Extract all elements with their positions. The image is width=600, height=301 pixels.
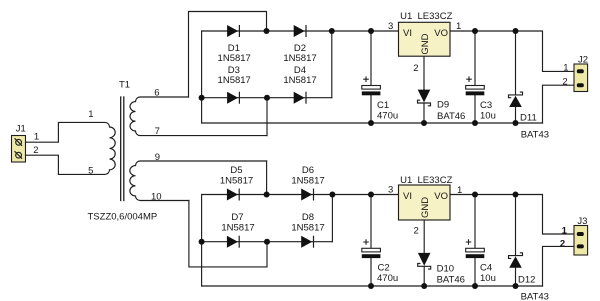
node D3-D4 midpoint [264, 95, 270, 101]
transformer core bars [121, 97, 124, 201]
svg-text:1: 1 [457, 185, 462, 196]
node C3 top [472, 28, 478, 34]
wire bottom bridge left common vertical [201, 195, 203, 287]
svg-text:1: 1 [88, 109, 93, 120]
svg-text:T1: T1 [119, 80, 130, 91]
wire primary with winding T1 left [26, 122, 116, 174]
capacitor C4 [466, 239, 496, 284]
node C3 bottom [472, 120, 478, 126]
node D5-D6 midpoint [264, 192, 270, 198]
wire top VO to J2 [450, 31, 574, 71]
wire C4 branch [474, 195, 476, 287]
winding secondary bottom (pins 9-10) [130, 161, 267, 201]
svg-text:D5: D5 [230, 165, 242, 176]
svg-text:1: 1 [563, 62, 568, 73]
svg-text:D8: D8 [302, 212, 314, 223]
wire top bridge plus rail [202, 30, 399, 32]
node C2 bottom [368, 283, 374, 289]
labels bottom bridge diodes [220, 165, 325, 234]
svg-text:470u: 470u [377, 273, 398, 284]
svg-text:10: 10 [151, 191, 162, 202]
wire J3 pin2 [543, 246, 575, 286]
svg-text:BAT43: BAT43 [521, 291, 549, 301]
wire pin6 loop to D1-D2 node [189, 12, 267, 98]
svg-text:D7: D7 [231, 212, 243, 223]
wire C1 branch [370, 31, 372, 123]
svg-text:3: 3 [388, 21, 393, 32]
wire bottom VO to J3 [450, 195, 574, 235]
svg-text:VO: VO [434, 191, 448, 202]
svg-text:3: 3 [388, 184, 393, 195]
node C4 bottom [472, 283, 478, 289]
wire top 0V rail [202, 122, 543, 124]
svg-text:D6: D6 [302, 165, 314, 176]
node bottom bridge right top [329, 192, 335, 198]
wire C3 branch [474, 31, 476, 123]
wire pin9 down to D5-D6 node [266, 161, 268, 195]
svg-text:2: 2 [560, 238, 565, 249]
svg-text:1N5817: 1N5817 [291, 175, 324, 186]
wire D11 branch [515, 31, 517, 123]
svg-text:1N5817: 1N5817 [283, 53, 316, 64]
labels J1 [16, 124, 39, 156]
diode D3 [227, 92, 239, 104]
svg-text:VI: VI [403, 28, 412, 39]
node D9 bottom [421, 120, 427, 126]
svg-text:9: 9 [155, 152, 160, 163]
diode D1 [227, 25, 239, 37]
capacitor C2 [362, 239, 398, 284]
svg-text:1: 1 [34, 132, 39, 143]
svg-text:VO: VO [434, 28, 448, 39]
node D11 bottom [513, 120, 519, 126]
svg-text:1N5817: 1N5817 [291, 222, 324, 233]
diode D2 [294, 25, 306, 37]
svg-text:GND: GND [420, 197, 431, 218]
svg-text:5: 5 [88, 165, 93, 176]
diode D6 [301, 189, 313, 201]
diode D4 [294, 92, 306, 104]
wire top bridge left common vertical [201, 31, 203, 123]
svg-text:1: 1 [562, 225, 568, 236]
svg-text:2: 2 [413, 63, 418, 74]
node C1 top [368, 28, 374, 34]
node C1 bottom [368, 120, 374, 126]
capacitor C3 [466, 76, 496, 121]
node top bridge right top [329, 28, 335, 34]
node D11 top [513, 28, 519, 34]
svg-text:1N5817: 1N5817 [220, 175, 253, 186]
node bottom bridge left lower [199, 239, 205, 245]
svg-text:D9: D9 [437, 100, 449, 111]
svg-text:2: 2 [562, 77, 567, 88]
svg-text:10u: 10u [480, 273, 496, 284]
diode D7 [227, 236, 239, 248]
svg-text:10u: 10u [480, 110, 496, 121]
node top bridge left lower [199, 95, 205, 101]
regulator U1 bottom [388, 175, 462, 236]
diode D12 BAT43 [509, 253, 549, 301]
svg-text:J3: J3 [577, 216, 587, 227]
wire bottom bridge lower rail D7 D8 [202, 241, 333, 243]
wire bottom 0V rail [202, 285, 543, 287]
diode D8 [301, 236, 313, 248]
connector J1 [12, 136, 26, 163]
node D12 top [513, 192, 519, 198]
svg-text:7: 7 [155, 126, 160, 137]
labels transformer [88, 80, 162, 223]
labels top bridge diodes [218, 43, 317, 86]
wire C2 branch [370, 195, 372, 287]
svg-text:BAT43: BAT43 [521, 130, 549, 141]
wire D10 branch [423, 220, 425, 286]
node C4 top [472, 192, 478, 198]
wire pin10 run to D7-D8 node [189, 201, 267, 267]
connector J3 [560, 216, 588, 255]
wire bottom bridge right vertical [331, 195, 333, 242]
svg-text:2: 2 [414, 226, 419, 237]
wire top bridge right vertical [331, 31, 333, 98]
svg-text:D12: D12 [518, 274, 535, 285]
svg-text:1N5817: 1N5817 [221, 222, 254, 233]
wire D9 branch [423, 56, 425, 123]
winding secondary top (pins 6-7) [130, 97, 267, 136]
diode D9 BAT46 [418, 90, 466, 122]
svg-text:1N5817: 1N5817 [283, 75, 316, 86]
svg-text:2: 2 [33, 145, 38, 156]
node D12 bottom [513, 283, 519, 289]
svg-text:J1: J1 [16, 124, 26, 135]
regulator U1 top [388, 11, 461, 74]
diode D11 BAT43 [509, 92, 550, 140]
svg-text:D11: D11 [520, 113, 537, 124]
capacitor C1 [362, 76, 398, 121]
svg-text:TSZZ0,6/004MP: TSZZ0,6/004MP [88, 211, 158, 222]
connector J2 [562, 55, 588, 92]
svg-text:BAT46: BAT46 [437, 274, 465, 285]
diode D5 [227, 189, 239, 201]
diode D10 BAT46 [418, 253, 465, 285]
svg-text:1N5817: 1N5817 [218, 75, 251, 86]
wire J2 pin2 [543, 85, 575, 123]
svg-text:D10: D10 [437, 263, 454, 274]
wire bottom bridge plus rail [202, 194, 399, 196]
node C2 top [368, 192, 374, 198]
svg-text:VI: VI [403, 191, 412, 202]
svg-text:470u: 470u [377, 110, 398, 121]
wire pin7 up to D3-D4 node [266, 98, 268, 136]
svg-text:GND: GND [420, 33, 431, 54]
node D10 bottom [421, 283, 427, 289]
node D1-D2 midpoint [264, 28, 270, 34]
svg-text:6: 6 [154, 87, 159, 98]
wire top bridge lower rail D3 D4 [202, 97, 332, 99]
svg-text:U1 LE33CZ: U1 LE33CZ [400, 175, 452, 186]
svg-text:1N5817: 1N5817 [218, 53, 251, 64]
node D7-D8 midpoint [264, 239, 270, 245]
svg-text:1: 1 [456, 21, 461, 32]
svg-text:BAT46: BAT46 [437, 111, 465, 122]
wire D12 branch [515, 195, 517, 287]
svg-text:U1 LE33CZ: U1 LE33CZ [400, 11, 452, 22]
svg-text:J2: J2 [578, 55, 588, 66]
